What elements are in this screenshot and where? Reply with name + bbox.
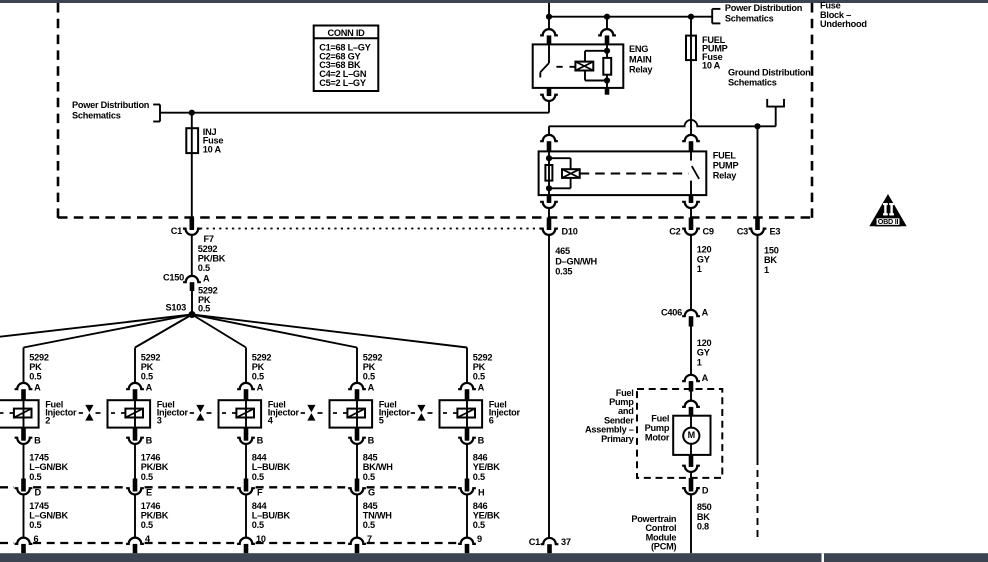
svg-text:TN/WH: TN/WH xyxy=(363,511,392,521)
svg-text:C1: C1 xyxy=(529,537,540,547)
svg-text:5292: 5292 xyxy=(252,353,272,363)
svg-text:D: D xyxy=(702,486,709,496)
svg-text:ENG: ENG xyxy=(629,44,648,54)
svg-text:OBD II: OBD II xyxy=(878,217,899,226)
svg-text:BK: BK xyxy=(764,255,777,265)
svg-text:0.5: 0.5 xyxy=(473,520,485,530)
svg-text:A: A xyxy=(34,383,41,393)
svg-text:Power Distribution: Power Distribution xyxy=(725,3,803,13)
svg-text:A: A xyxy=(203,274,210,284)
svg-text:10 A: 10 A xyxy=(203,145,222,155)
svg-text:D10: D10 xyxy=(562,226,578,236)
svg-text:Ground Distribution: Ground Distribution xyxy=(728,68,811,78)
svg-text:0.5: 0.5 xyxy=(252,372,264,382)
svg-text:845: 845 xyxy=(363,501,378,511)
svg-text:0.5: 0.5 xyxy=(198,304,210,314)
svg-text:Schematics: Schematics xyxy=(725,14,774,24)
svg-text:5292: 5292 xyxy=(141,353,161,363)
svg-text:D: D xyxy=(35,488,42,498)
svg-text:F: F xyxy=(257,488,263,498)
svg-text:0.5: 0.5 xyxy=(29,372,41,382)
svg-text:L–GN/BK: L–GN/BK xyxy=(29,511,68,521)
svg-text:0.5: 0.5 xyxy=(473,472,485,482)
svg-text:5292: 5292 xyxy=(473,353,493,363)
svg-text:Relay: Relay xyxy=(629,65,653,75)
svg-text:C5=2 L–GY: C5=2 L–GY xyxy=(319,78,366,88)
svg-text:Relay: Relay xyxy=(713,170,737,180)
svg-text:0.5: 0.5 xyxy=(363,472,375,482)
svg-text:0.5: 0.5 xyxy=(252,472,264,482)
svg-text:A: A xyxy=(146,383,153,393)
svg-text:L–BU/BK: L–BU/BK xyxy=(252,462,291,472)
svg-text:C2: C2 xyxy=(669,226,680,236)
svg-text:Schematics: Schematics xyxy=(72,111,121,121)
svg-text:CONN ID: CONN ID xyxy=(327,28,365,38)
svg-text:PUMP: PUMP xyxy=(713,161,739,171)
svg-text:1745: 1745 xyxy=(29,452,49,462)
svg-text:1746: 1746 xyxy=(141,501,161,511)
svg-text:0.5: 0.5 xyxy=(141,372,153,382)
svg-text:0.5: 0.5 xyxy=(29,472,41,482)
svg-text:Underhood: Underhood xyxy=(820,19,867,29)
svg-text:0.35: 0.35 xyxy=(555,266,572,276)
svg-text:6: 6 xyxy=(489,416,494,426)
svg-text:F7: F7 xyxy=(204,234,214,244)
svg-text:0.8: 0.8 xyxy=(697,522,709,532)
svg-text:120: 120 xyxy=(697,245,712,255)
svg-text:2: 2 xyxy=(45,416,50,426)
svg-text:BK/WH: BK/WH xyxy=(363,462,393,472)
svg-text:5292: 5292 xyxy=(29,353,49,363)
svg-text:C3: C3 xyxy=(737,226,748,236)
svg-text:M: M xyxy=(688,430,695,440)
svg-text:YE/BK: YE/BK xyxy=(473,511,500,521)
svg-text:844: 844 xyxy=(252,452,268,462)
svg-text:D–GN/WH: D–GN/WH xyxy=(555,256,597,266)
svg-text:1745: 1745 xyxy=(29,501,49,511)
svg-text:A: A xyxy=(257,383,264,393)
svg-text:(PCM): (PCM) xyxy=(651,542,676,552)
svg-text:844: 844 xyxy=(252,501,268,511)
svg-text:S103: S103 xyxy=(166,303,187,313)
svg-text:0.5: 0.5 xyxy=(473,372,485,382)
svg-text:0.5: 0.5 xyxy=(29,520,41,530)
svg-text:10 A: 10 A xyxy=(702,61,721,71)
svg-text:9: 9 xyxy=(477,534,482,544)
svg-text:B: B xyxy=(146,436,153,446)
svg-text:1: 1 xyxy=(764,265,769,275)
svg-text:0.5: 0.5 xyxy=(141,472,153,482)
svg-text:845: 845 xyxy=(363,452,378,462)
svg-text:B: B xyxy=(478,436,485,446)
svg-text:120: 120 xyxy=(697,338,712,348)
svg-text:846: 846 xyxy=(473,452,488,462)
svg-text:Schematics: Schematics xyxy=(728,77,777,87)
svg-text:5292: 5292 xyxy=(198,285,218,295)
svg-text:150: 150 xyxy=(764,245,779,255)
svg-text:C406: C406 xyxy=(661,307,682,317)
svg-text:GY: GY xyxy=(697,254,710,264)
svg-text:0.5: 0.5 xyxy=(363,520,375,530)
svg-text:YE/BK: YE/BK xyxy=(473,462,500,472)
svg-text:B: B xyxy=(257,436,264,446)
svg-text:3: 3 xyxy=(157,416,162,426)
svg-text:A: A xyxy=(702,308,709,318)
svg-text:GY: GY xyxy=(697,348,710,358)
svg-text:1: 1 xyxy=(697,357,702,367)
svg-text:5: 5 xyxy=(379,416,384,426)
svg-text:850: 850 xyxy=(697,502,712,512)
svg-text:A: A xyxy=(702,373,709,383)
svg-text:PK/BK: PK/BK xyxy=(198,254,226,264)
svg-text:Primary: Primary xyxy=(601,434,635,444)
svg-text:0.5: 0.5 xyxy=(363,372,375,382)
svg-text:Motor: Motor xyxy=(645,432,670,442)
svg-text:Power Distribution: Power Distribution xyxy=(72,100,150,110)
svg-text:C9: C9 xyxy=(703,226,714,236)
svg-text:C150: C150 xyxy=(163,273,184,283)
svg-text:FUEL: FUEL xyxy=(713,151,737,161)
svg-text:37: 37 xyxy=(561,537,571,547)
svg-text:BK: BK xyxy=(697,512,710,522)
svg-text:MAIN: MAIN xyxy=(629,54,652,64)
svg-text:0.5: 0.5 xyxy=(141,520,153,530)
svg-text:A: A xyxy=(478,383,485,393)
svg-text:846: 846 xyxy=(473,501,488,511)
svg-text:465: 465 xyxy=(555,246,570,256)
svg-text:1746: 1746 xyxy=(141,452,161,462)
svg-text:L–BU/BK: L–BU/BK xyxy=(252,511,291,521)
svg-text:PK/BK: PK/BK xyxy=(141,511,169,521)
svg-text:C1: C1 xyxy=(171,226,182,236)
svg-text:A: A xyxy=(368,383,375,393)
svg-text:5292: 5292 xyxy=(198,244,218,254)
svg-text:B: B xyxy=(34,436,41,446)
svg-text:B: B xyxy=(368,436,375,446)
svg-text:E3: E3 xyxy=(770,226,781,236)
svg-text:5292: 5292 xyxy=(363,353,383,363)
svg-text:L–GN/BK: L–GN/BK xyxy=(29,462,68,472)
svg-text:E: E xyxy=(146,488,152,498)
svg-text:H: H xyxy=(478,488,485,498)
svg-text:G: G xyxy=(368,488,375,498)
svg-text:0.5: 0.5 xyxy=(198,263,210,273)
svg-text:0.5: 0.5 xyxy=(252,520,264,530)
svg-text:PK/BK: PK/BK xyxy=(141,462,169,472)
svg-text:1: 1 xyxy=(697,264,702,274)
